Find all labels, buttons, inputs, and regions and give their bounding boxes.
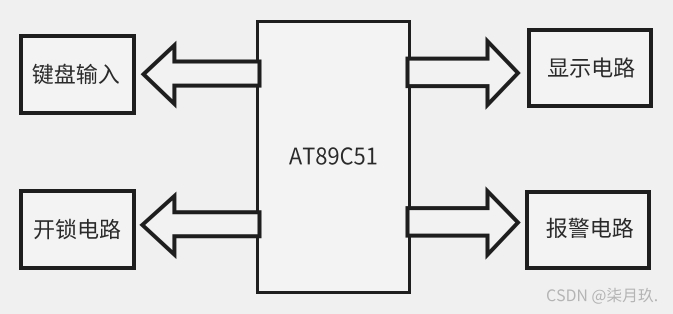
block: alarm circuit box (527, 192, 649, 268)
block: display circuit box (529, 30, 651, 106)
watermark: CSDN @柒月玖. (547, 288, 657, 304)
label: 开锁电路 (unlock circuit) (34, 219, 120, 239)
wire arrow: MCU to display (right top, hollow right-pointing) (408, 41, 519, 105)
block: keyboard input box (21, 36, 134, 113)
wire arrow: MCU to alarm (right bottom, hollow right-pointing) (408, 191, 519, 255)
label: 键盘输入 (keyboard input) (32, 64, 119, 85)
label: 显示电路 (display circuit) (548, 57, 635, 77)
wire arrow: MCU to keyboard (left top, hollow left-pointing) (144, 45, 260, 104)
label: AT89C51 (289, 147, 376, 164)
label: 报警电路 (alarm circuit) (546, 218, 633, 238)
wire arrow: MCU to unlock (left bottom, hollow left-pointing) (142, 196, 259, 255)
block: unlock circuit box (21, 191, 134, 268)
block: AT89C51 MCU box (258, 22, 410, 293)
